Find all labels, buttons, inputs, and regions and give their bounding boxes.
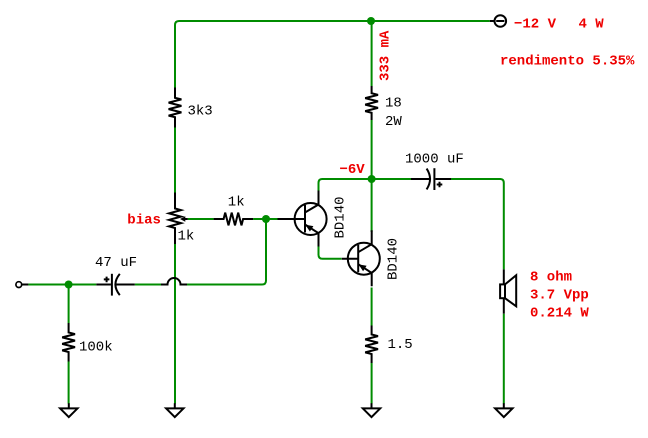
svg-text:1.5: 1.5 bbox=[388, 337, 413, 353]
resistor R5 1.5 bbox=[365, 326, 378, 364]
wire R18 to -6V node and down to Q2 collector bbox=[371, 120, 373, 232]
potentiometer bias 1k bbox=[169, 193, 181, 245]
transistor Q1 BD140 (PNP) bbox=[295, 203, 327, 235]
svg-text:rendimento 5.35%: rendimento 5.35% bbox=[500, 54, 635, 70]
resistor R2 18 2W bbox=[365, 86, 378, 120]
wire -6V node left to Q1 collector bbox=[319, 179, 372, 191]
capacitor C2 1000uF bbox=[411, 178, 430, 180]
wire junction down to input line bbox=[187, 219, 266, 285]
ground 1 bbox=[68, 403, 70, 408]
svg-text:1k: 1k bbox=[178, 229, 195, 245]
wire -6V node right to 1000uF bbox=[372, 178, 411, 180]
svg-text:333 mA: 333 mA bbox=[378, 30, 394, 81]
wire speaker to ground bbox=[503, 314, 505, 404]
svg-text:BD140: BD140 bbox=[333, 196, 349, 238]
svg-text:−6V: −6V bbox=[340, 162, 366, 178]
wire pot to ground bbox=[174, 244, 176, 404]
svg-text:3.7 Vpp: 3.7 Vpp bbox=[530, 288, 589, 304]
wire Q2 emitter to R1.5 bbox=[371, 288, 373, 326]
ground 4 bbox=[503, 403, 505, 408]
node input junction bbox=[65, 281, 73, 289]
svg-text:1k: 1k bbox=[228, 195, 245, 211]
wire junction down to 100k bbox=[68, 285, 70, 324]
ground 2 bbox=[174, 403, 176, 408]
wire 100k to ground bbox=[68, 362, 70, 404]
resistor R4 100k bbox=[62, 323, 75, 362]
svg-text:2W: 2W bbox=[385, 114, 402, 130]
ground 3 bbox=[371, 403, 373, 408]
supply terminal -12V bbox=[490, 20, 495, 22]
svg-text:8 ohm: 8 ohm bbox=[530, 270, 572, 286]
wire pot wiper to 1k bbox=[188, 218, 214, 220]
wire top junction down to R18 bbox=[371, 21, 373, 86]
resistor R3 1k bbox=[214, 213, 254, 226]
svg-text:−12 V: −12 V bbox=[514, 17, 557, 33]
wire top-left corner and top rail bbox=[175, 21, 490, 88]
wire hop to 47uF bbox=[135, 284, 161, 286]
svg-text:100k: 100k bbox=[79, 340, 113, 356]
wire 1000uF to speaker bbox=[451, 179, 504, 269]
capacitor C1 47uF bbox=[96, 284, 111, 286]
resistor R1 3k3 bbox=[169, 88, 182, 128]
pot wiper arrow bbox=[184, 218, 188, 220]
wire left vertical (3k3 to pot) bbox=[174, 128, 176, 193]
input terminal bbox=[22, 284, 29, 286]
svg-text:bias: bias bbox=[127, 213, 161, 229]
speaker SP1 8 ohm bbox=[503, 269, 505, 284]
wire hop over vertical wire (no connection) bbox=[161, 278, 187, 284]
node bias junction bbox=[262, 215, 270, 223]
svg-text:18: 18 bbox=[385, 96, 402, 112]
wire Q1 emitter to Q2 base bbox=[319, 247, 342, 259]
wire junction to Q1 base bbox=[266, 218, 278, 220]
wire 1k to bias junction bbox=[253, 218, 266, 220]
transistor Q2 BD140 (PNP) bbox=[348, 243, 380, 275]
node top junction bbox=[367, 17, 375, 25]
svg-text:BD140: BD140 bbox=[386, 238, 402, 280]
wire input terminal to 47uF bbox=[28, 284, 96, 286]
svg-text:1000 uF: 1000 uF bbox=[405, 152, 464, 168]
svg-text:3k3: 3k3 bbox=[188, 104, 213, 120]
svg-text:0.214 W: 0.214 W bbox=[530, 306, 589, 322]
node -6V junction bbox=[368, 175, 376, 183]
svg-text:4 W: 4 W bbox=[579, 17, 605, 33]
svg-text:47 uF: 47 uF bbox=[95, 255, 137, 271]
wire R1.5 to ground bbox=[371, 363, 373, 404]
